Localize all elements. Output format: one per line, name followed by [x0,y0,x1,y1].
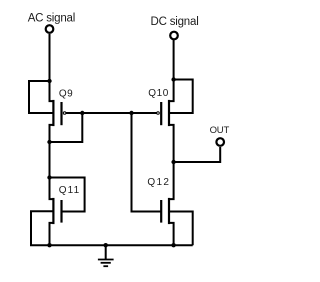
Q10 gate bubble (PMOS) [157,112,160,115]
svg-text:Q10: Q10 [148,88,169,99]
transistor Q12 gate plate [160,200,162,223]
transistor Q10 channel [168,100,170,126]
junction Q11 source / rail [47,243,51,247]
transistor Q11 channel [52,198,54,224]
terminal circle AC [46,25,54,33]
transistor Q11 gate plate [60,200,62,223]
ground bar 1 [98,259,114,261]
junction node A (gate bus / Q9 source tie) [80,111,84,115]
svg-text:AC signal: AC signal [28,12,75,24]
wire node A down to Q9 source tie [50,113,83,142]
ground stem [105,245,107,259]
junction ground / rail [104,243,108,247]
svg-text:Q12: Q12 [147,177,170,188]
transistor Q9 gate plate [60,102,62,125]
junction node C (Q11 gate tie) [47,175,51,179]
wire Q12 body to ground rail (right drop) [169,212,192,246]
wire OUT branch [174,147,221,162]
ground bar 3 [103,265,108,267]
wire DC terminal stem down through Q10 drain jog [168,40,173,101]
transistor Q9 channel [52,100,54,126]
wire AC terminal stem down through Q9 drain jog [50,34,55,101]
svg-text:DC signal: DC signal [151,16,199,28]
junction Q12 source / rail [171,243,175,247]
wire gate bus Q9 to Q10 [66,112,157,114]
svg-text:OUT: OUT [210,125,230,136]
junction node B (gate bus / Q12 gate) [129,111,133,115]
transistor Q10 gate plate [160,102,162,125]
terminal circle OUT [216,138,224,146]
wire DC junction to Q10 body (right loop) [169,80,192,114]
svg-text:Q9: Q9 [59,89,73,100]
wire node C to Q11 gate [50,178,85,212]
wire Q11 body to ground rail (left drop) [31,211,53,245]
wire Q12 source to ground rail [168,223,173,245]
transistor Q12 channel [168,198,170,224]
wire node B down to Q12 gate [132,113,162,212]
junction Q9 source tie [47,140,51,144]
junction AC node [47,79,51,83]
junction DC node [171,77,175,81]
wire Q10 source to Q12 drain (right column) [168,125,173,199]
junction OUT node [171,160,175,164]
wire AC junction to Q9 body (left loop) [29,81,53,113]
ground bar 2 [101,262,111,264]
wire ground rail [30,244,193,246]
wire Q11 source to ground rail [50,223,55,245]
terminal circle DC [170,32,178,40]
Q9 gate bubble (PMOS) [63,112,66,115]
wire Q9 source to Q11 drain (left column) [50,125,55,199]
svg-text:Q11: Q11 [59,185,80,196]
